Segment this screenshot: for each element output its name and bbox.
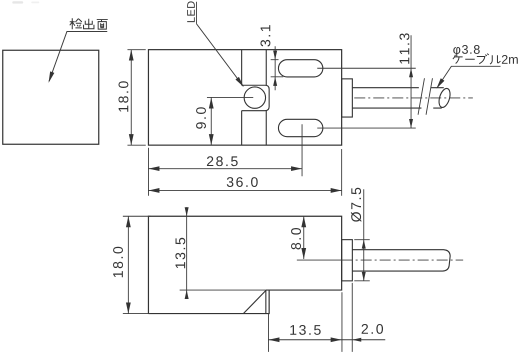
dim 28.5: extension line right (from bottom slot center): [301, 124, 303, 176]
dim 13.5 vertical: extension line: [180, 289, 266, 291]
top view: center channel upper: [242, 50, 267, 86]
side view: centerline: [297, 259, 342, 261]
dim 18.0 side view: dimension line: [127, 216, 129, 313]
dim 18.0 side view: text: [113, 247, 123, 277]
top view: body outline: [148, 50, 341, 145]
dim 18.0 top view: text: [118, 81, 128, 111]
scan smudge artifact: [12, 1, 23, 3]
dim 3.1: extension lines: [271, 60, 284, 77]
dim 36.0: text: [227, 177, 258, 187]
dim 36.0: dimension line: [148, 189, 341, 191]
dim phi7.5: extension lines: [354, 240, 370, 281]
top mounting slot: [278, 60, 322, 77]
dim phi7.5: text: [351, 188, 361, 222]
label kenshutsumen (detection face) text: [70, 18, 108, 29]
LED hole circle: [244, 87, 265, 108]
dim 13.5 horizontal: text: [290, 325, 320, 335]
side view: front plate line: [265, 290, 267, 314]
dim phi7.5: dimension line: [363, 189, 365, 281]
cable break lines: [418, 78, 432, 115]
front view: detection face square: [3, 50, 99, 144]
leader line for detection face label: [49, 31, 107, 81]
LED leader line: [196, 24, 243, 87]
side view: cable gland: [342, 240, 353, 281]
dim 13.5 vertical: dimension line, outside arrows: [186, 207, 188, 297]
dim 28.5: dimension line: [148, 168, 302, 170]
top view: LED pocket: [242, 85, 270, 110]
cable top view: [352, 88, 443, 108]
dim 9.0: dimension line: [210, 97, 212, 145]
dim 13.5 horizontal: extension lines: [268, 283, 352, 352]
cable centerline top view: [354, 97, 473, 99]
cable end ellipse: [437, 87, 452, 109]
LED label underline: [195, 2, 197, 24]
dim 9.0: extension line from circle center: [207, 96, 253, 98]
label phi3.8 cable text: [453, 45, 479, 56]
side view: cable with rounded end: [352, 250, 450, 271]
dim 18.0 top view: dimension line: [130, 50, 132, 145]
dim 9.0: text: [196, 107, 206, 128]
dim 2.0: dimension line with outside arrow: [342, 339, 386, 341]
dim 3.1: dimension line with outside arrows: [274, 46, 276, 90]
dim 18.0 top view: extension lines: [127, 50, 145, 145]
top view: center channel lower: [242, 111, 267, 145]
dim 2.0: text: [362, 324, 383, 334]
dim 28.5: text: [207, 156, 238, 166]
LED label text (rotated): [187, 1, 195, 22]
dim 18.0 side view: extension lines: [123, 216, 151, 313]
label cable 2m (katakana): [453, 54, 501, 64]
dim 28.5: left extension (body edge down): [147, 148, 149, 196]
dim 8.0: dimension line: [303, 216, 305, 259]
dim 11.3: extension lines from slot centers: [317, 68, 416, 128]
dim 3.1: text: [260, 25, 270, 46]
cable gland top view: [342, 79, 353, 117]
dim 11.3: dimension line: [410, 35, 412, 128]
dim 36.0: extension line right: [341, 149, 343, 196]
side view: body outline: [148, 216, 341, 313]
cable label underline + leader: [437, 66, 500, 87]
dim 8.0: text: [291, 228, 301, 250]
side view: chamfer: [243, 291, 265, 314]
dim 13.5 vertical: text: [175, 238, 185, 268]
dim 11.3: text: [399, 33, 409, 63]
bottom mounting slot: [278, 119, 322, 136]
dim 13.5 horizontal: dimension line: [268, 339, 341, 341]
